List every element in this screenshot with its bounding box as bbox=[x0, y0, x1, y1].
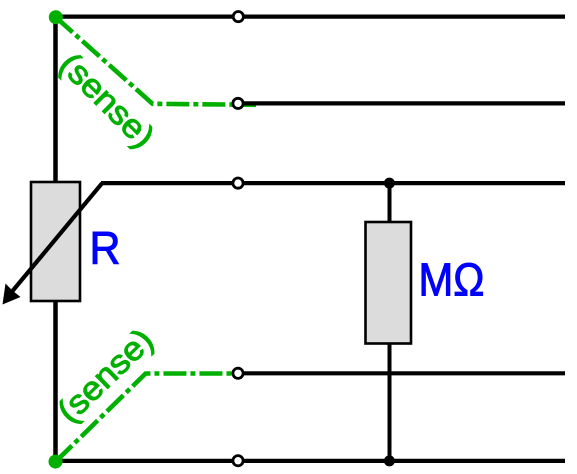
terminal circle 3 bbox=[233, 178, 243, 188]
arrowhead of wiper bbox=[3, 284, 21, 305]
terminal circle 4 bbox=[233, 368, 243, 378]
wire: potentiometer wiper diagonal bbox=[13, 183, 103, 291]
svg-text:MΩ: MΩ bbox=[419, 254, 485, 306]
wire: terminal 5 (bottom force) horizontal bbox=[56, 459, 566, 463]
wire: terminal 1 (top force) horizontal bbox=[56, 15, 566, 19]
wire: left vertical bus upper segment bbox=[53, 16, 58, 186]
wire: terminal 4 (sense low) horizontal bbox=[238, 371, 565, 375]
wire: terminal 3 (guard) horizontal bbox=[101, 181, 565, 185]
terminal circle 1 bbox=[233, 12, 243, 22]
wire: terminal 2 (sense high) horizontal bbox=[242, 101, 565, 105]
node: junction dot wire3/MΩ bbox=[384, 178, 395, 189]
wire: sense bottom dash-dot diagonal+horizontal bbox=[56, 374, 239, 462]
wire: sense top dash-dot diagonal+horizontal bbox=[56, 17, 257, 105]
terminal circle 2 bbox=[233, 98, 243, 108]
resistor R body bbox=[31, 182, 80, 301]
svg-text:R: R bbox=[90, 222, 121, 274]
wire: left vertical bus lower segment bbox=[53, 297, 58, 461]
node: green sense tap bottom bbox=[49, 455, 63, 469]
node: junction dot wire5/MΩ bbox=[384, 455, 395, 466]
node: green sense tap top bbox=[49, 10, 63, 24]
resistor MΩ body bbox=[366, 222, 412, 344]
wire: MΩ resistor bottom lead bbox=[388, 341, 392, 461]
wire: MΩ resistor top lead bbox=[388, 183, 392, 224]
terminal circle 5 bbox=[233, 456, 243, 466]
